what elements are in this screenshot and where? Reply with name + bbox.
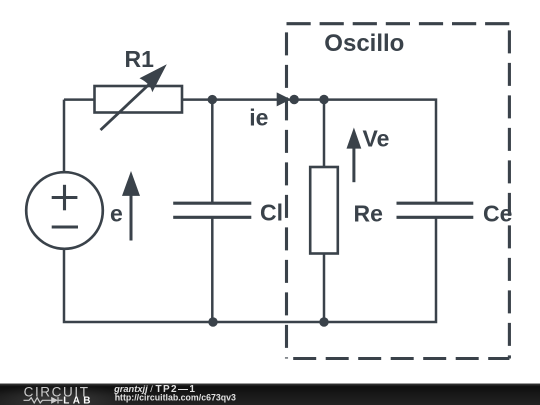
svg-text:Ve: Ve xyxy=(363,126,390,152)
svg-text:Oscillo: Oscillo xyxy=(324,30,404,57)
svg-text:R1: R1 xyxy=(125,46,155,72)
svg-text:e: e xyxy=(110,201,123,227)
svg-text:ie: ie xyxy=(249,104,268,130)
svg-text:http://circuitlab.com/c673qv3: http://circuitlab.com/c673qv3 xyxy=(115,393,236,403)
svg-text:Ce: Ce xyxy=(483,201,512,227)
svg-text:Cl: Cl xyxy=(260,200,283,226)
svg-text:LAB: LAB xyxy=(63,396,93,405)
svg-text:Re: Re xyxy=(354,201,383,227)
